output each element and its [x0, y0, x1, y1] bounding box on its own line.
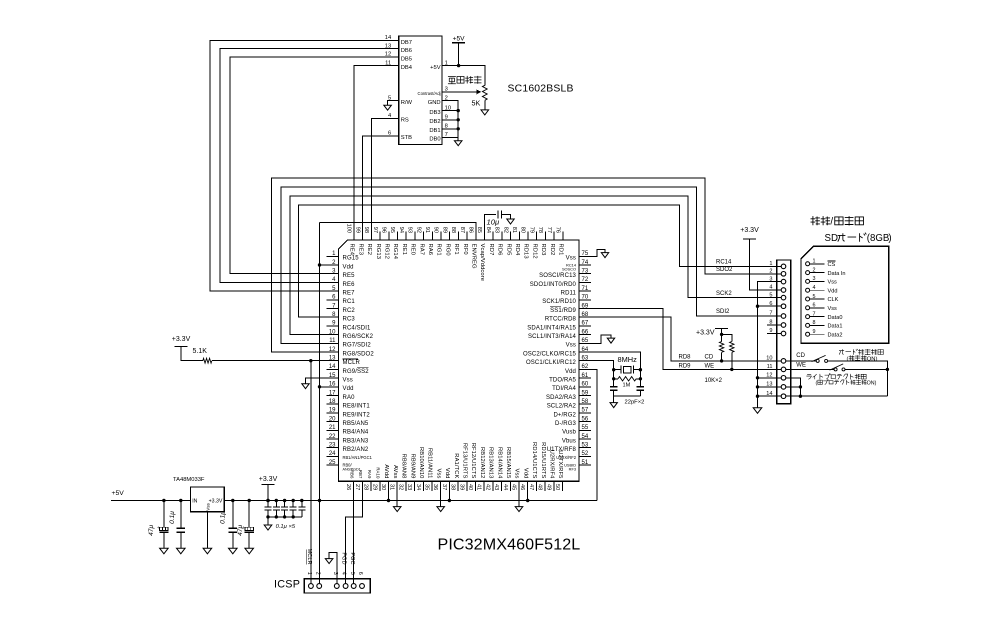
capacitor bank C8-C12 0.1u x5: [265, 499, 306, 525]
svg-text:DB6: DB6: [401, 48, 412, 54]
svg-text:DB5: DB5: [401, 56, 412, 62]
svg-text:STB: STB: [401, 135, 412, 141]
ground at crystal: [610, 403, 617, 408]
svg-text:DB7: DB7: [401, 40, 412, 46]
wire Vss pin45 to ground: [518, 491, 520, 507]
svg-text:+: +: [157, 526, 160, 531]
junction at LCD +5V: [457, 64, 460, 67]
svg-text:49: 49: [545, 484, 551, 490]
svg-text:19: 19: [329, 408, 336, 414]
wire SD ground rail CN1 pins 3 6 12 13 14: [758, 282, 782, 408]
svg-text:RB10/AN10: RB10/AN10: [418, 447, 424, 479]
resistor R2 1M: [614, 378, 641, 380]
svg-text:47μ: 47μ: [148, 525, 155, 536]
wire +3.3V to CN1 pin4: [750, 239, 782, 290]
svg-text:6: 6: [357, 572, 363, 575]
junction C5: [179, 499, 182, 502]
label kido-chousei (brightness adjust): [448, 77, 456, 84]
svg-text:75: 75: [582, 251, 589, 257]
svg-text:37: 37: [441, 484, 447, 490]
connector CN2 pin circles: [309, 584, 365, 589]
wire RG8/SDO2 pin12 to SD connector pin2 (SDO2 net): [272, 178, 782, 352]
potentiometer VR1 5K: [482, 85, 487, 100]
svg-text:85: 85: [476, 227, 482, 233]
svg-text:DB0: DB0: [429, 137, 440, 143]
svg-text:99: 99: [354, 227, 360, 233]
svg-text:11: 11: [767, 364, 773, 370]
SD card symbol body: [801, 246, 889, 343]
wire LCD Contrast/Adj to potentiometer wiper: [442, 91, 476, 93]
svg-text:97: 97: [372, 227, 378, 233]
svg-text:47: 47: [528, 484, 534, 490]
svg-text:RB11/AN11: RB11/AN11: [427, 448, 433, 479]
svg-text:RE2: RE2: [366, 244, 372, 256]
svg-text:3: 3: [813, 276, 816, 282]
svg-text:12: 12: [329, 347, 336, 353]
svg-text:+5V: +5V: [430, 65, 441, 71]
svg-text:34: 34: [415, 484, 421, 490]
svg-text:11: 11: [329, 338, 336, 344]
svg-text:RA9: RA9: [367, 470, 372, 479]
junction at pull-up split: [720, 333, 723, 336]
svg-text:RD15/U1RTS: RD15/U1RTS: [540, 442, 546, 478]
svg-text:RG12: RG12: [384, 244, 390, 260]
svg-text:29: 29: [371, 484, 377, 490]
svg-text:4: 4: [341, 572, 347, 575]
svg-text:RB9/AN9: RB9/AN9: [409, 454, 415, 479]
svg-text:36: 36: [432, 484, 438, 490]
svg-text:+5V: +5V: [453, 36, 466, 43]
svg-text:Vusb: Vusb: [562, 430, 576, 436]
ground at pin36: [437, 507, 445, 512]
svg-text:RD8: RD8: [679, 354, 692, 360]
svg-text:SDO2: SDO2: [716, 267, 733, 273]
svg-text:DB3: DB3: [429, 110, 440, 116]
junction +3.3V: [266, 499, 269, 502]
svg-text:PIC32MX460F512L: PIC32MX460F512L: [438, 536, 581, 554]
svg-text:52: 52: [582, 451, 589, 457]
svg-text:33: 33: [406, 484, 412, 490]
svg-text:ENVREG: ENVREG: [471, 244, 477, 269]
LCD module SC1602BSLB body: [399, 36, 442, 145]
U1 top pin name labels: [349, 244, 564, 282]
svg-text:SOSCI/RC13: SOSCI/RC13: [539, 273, 576, 279]
svg-text:RE4: RE4: [349, 244, 355, 256]
junction SW2-common: [886, 368, 889, 371]
junction rail Vdd pin46: [527, 491, 529, 501]
ground at pin15: [302, 384, 309, 389]
svg-text:WE: WE: [705, 363, 715, 369]
svg-text:92: 92: [415, 227, 421, 233]
svg-text:88: 88: [450, 227, 456, 233]
svg-text:2: 2: [769, 269, 772, 275]
svg-text:40: 40: [467, 484, 473, 490]
svg-text:D+/RG2: D+/RG2: [553, 412, 576, 418]
label write protect detect (Japanese): [806, 374, 811, 379]
junction R4-WE: [730, 368, 733, 371]
svg-text:18: 18: [329, 399, 336, 405]
svg-text:66: 66: [582, 329, 589, 335]
svg-text:0.1μ ×5: 0.1μ ×5: [276, 524, 296, 530]
wire U1 pin15 Vss to ground: [306, 378, 327, 384]
svg-text:RF12/U1CTS: RF12/U1CTS: [470, 443, 476, 479]
svg-text:5: 5: [349, 572, 355, 575]
crystal X1 8MHz: [614, 369, 641, 371]
U1 left pin name labels: [343, 256, 375, 472]
capacitor C2 22pF left: [610, 386, 617, 388]
svg-text:98: 98: [363, 227, 369, 233]
wire ICSP pin3 to ground: [329, 553, 337, 584]
wire RG7/SDI2 pin11 to SD connector pin7 (SDI2 net): [281, 187, 781, 343]
svg-text:RE6: RE6: [343, 282, 356, 288]
svg-text:TA48M033F: TA48M033F: [173, 477, 205, 483]
svg-text:RS: RS: [401, 118, 409, 124]
svg-text:+3.3V: +3.3V: [259, 476, 278, 483]
svg-text:GND: GND: [428, 100, 441, 106]
svg-text:5: 5: [813, 294, 816, 300]
capacitor C4 47u input: [163, 501, 165, 549]
wire Vdd net: U1 pin2, ENVREG pin86, pin16, +3.3V rail, ICSP pin2: [320, 222, 476, 583]
svg-text:2: 2: [314, 572, 320, 575]
svg-text:13: 13: [329, 356, 336, 362]
ground at capacitor bank: [264, 525, 272, 530]
svg-text:Vss: Vss: [566, 256, 576, 262]
svg-text:Vss: Vss: [828, 280, 838, 286]
wire LCD R/W to ground: [388, 101, 399, 106]
svg-text:96: 96: [381, 227, 387, 233]
svg-text:7: 7: [769, 311, 772, 317]
svg-text:RF13/U1RTS: RF13/U1RTS: [462, 443, 468, 479]
wire LCD STB to U1 RE3 pin99: [363, 136, 399, 232]
svg-text:25: 25: [329, 460, 336, 466]
svg-text:2: 2: [813, 267, 816, 273]
power +3.3V symbol at MCLR: [174, 346, 187, 348]
junction at U1 pin2: [318, 263, 321, 266]
svg-text:45: 45: [511, 484, 517, 490]
svg-text:RD5: RD5: [505, 244, 511, 256]
svg-text:Vdd: Vdd: [828, 288, 838, 294]
svg-text:RD3: RD3: [540, 244, 546, 256]
wire Vss pin36 to ground: [440, 491, 442, 507]
connector CN1 SD card socket body: [777, 260, 791, 404]
wire +3.3V output rail: [224, 500, 597, 502]
svg-text:Vdd: Vdd: [343, 386, 354, 392]
ground at C7: [245, 548, 254, 554]
svg-text:22pF×2: 22pF×2: [625, 400, 645, 406]
svg-text:60: 60: [582, 382, 589, 388]
svg-text:80: 80: [520, 227, 526, 233]
svg-text:CS: CS: [828, 262, 836, 268]
svg-text:RC3: RC3: [343, 317, 356, 323]
junction R3-CD: [720, 359, 723, 362]
svg-text:82: 82: [502, 227, 508, 233]
svg-text:28: 28: [363, 484, 369, 490]
svg-text:Data1: Data1: [828, 324, 843, 330]
svg-text:RG1: RG1: [436, 244, 442, 256]
svg-text:SDA2/RA3: SDA2/RA3: [546, 395, 577, 401]
svg-text:RE3: RE3: [357, 244, 363, 256]
svg-text:Vss: Vss: [435, 469, 441, 479]
wire U1 pin65 Vss to ground: [591, 335, 611, 344]
svg-text:SC1602BSLB: SC1602BSLB: [508, 84, 574, 95]
svg-text:DB1: DB1: [429, 128, 440, 134]
svg-text:RF1: RF1: [453, 244, 459, 255]
svg-text:87: 87: [459, 227, 465, 233]
U1 top pins 76-100 stubs and numbers: [346, 224, 563, 240]
svg-text:47μ: 47μ: [237, 525, 244, 536]
junction at U1 pin16: [318, 385, 321, 388]
svg-text:MCLR: MCLR: [343, 360, 361, 366]
svg-text:74: 74: [582, 260, 589, 266]
svg-text:59: 59: [582, 390, 589, 396]
svg-text:8GB: 8GB: [870, 233, 889, 244]
wire CN1 pins 12 13 14 right-side tie: [786, 378, 888, 396]
svg-text:0.1μ: 0.1μ: [220, 511, 227, 524]
svg-text:RB3/AN3: RB3/AN3: [343, 438, 369, 444]
connector CN2 ICSP body: [304, 579, 370, 593]
svg-text:SS1/RD9: SS1/RD9: [550, 308, 576, 314]
svg-text:64: 64: [582, 347, 589, 353]
svg-text:SDO1/INT0/RD0: SDO1/INT0/RD0: [530, 282, 577, 288]
svg-text:71: 71: [582, 286, 589, 292]
svg-text:(: (: [816, 380, 818, 386]
svg-text:10: 10: [329, 329, 336, 335]
wire U1 OSC1 pin63 to crystal left rail: [591, 361, 614, 396]
ground at pin45: [515, 507, 523, 512]
svg-text:91: 91: [424, 227, 430, 233]
svg-text:+3.3V: +3.3V: [740, 227, 759, 234]
connector CN2 pin numbers: [306, 572, 363, 575]
wire LCD DB6 to U1 RE6 pin4: [220, 49, 399, 283]
svg-text:OSC1/CLKI/RC12: OSC1/CLKI/RC12: [526, 360, 577, 366]
switch SW2 write protect: [834, 368, 837, 371]
wire +3.3V through resistor 5.1K to U1 MCLR pin13 and ICSP pin1: [181, 347, 327, 584]
svg-text:RD1: RD1: [558, 244, 564, 256]
svg-text:15: 15: [329, 373, 336, 379]
svg-text:RG6/SCK2: RG6/SCK2: [343, 334, 374, 340]
svg-text:CD: CD: [796, 353, 805, 359]
svg-text:Data0: Data0: [828, 315, 843, 321]
svg-text:+3.3V: +3.3V: [209, 498, 223, 504]
wire potentiometer to ground: [484, 100, 486, 110]
svg-text:RA1/TCK: RA1/TCK: [453, 453, 459, 478]
wire U1 SS1/RD9 pin69 to WE line: [591, 309, 834, 370]
wire AVss pin31 to ground: [396, 491, 398, 507]
power +3.3V symbol on rail: [261, 483, 274, 485]
svg-text:20: 20: [329, 416, 336, 422]
capacitor C3 22pF right: [637, 386, 644, 388]
label kioku/saisei-you (Japanese): [811, 216, 820, 225]
wire LCD DB4 to U1 RE4 pin100: [354, 66, 399, 232]
svg-text:84: 84: [485, 227, 491, 233]
svg-text:1: 1: [769, 261, 772, 267]
svg-text:TDI/RA4: TDI/RA4: [552, 386, 576, 392]
svg-text:RA7: RA7: [418, 244, 424, 256]
wire +5V input rail: [111, 500, 190, 502]
svg-text:31: 31: [389, 484, 395, 490]
svg-text:79: 79: [528, 227, 534, 233]
wire +3.3V to pull-up resistors: [722, 328, 732, 341]
U1 bottom pins 26-50 stubs and numbers: [345, 481, 562, 491]
svg-text:+5V: +5V: [112, 490, 125, 497]
wire U1 pin62 Vdd to +3.3V rail: [591, 369, 597, 500]
svg-text:21: 21: [329, 425, 336, 431]
svg-text:Vdd: Vdd: [522, 468, 528, 479]
svg-text:65: 65: [582, 338, 589, 344]
svg-text:1: 1: [813, 259, 816, 265]
svg-text:10: 10: [766, 356, 772, 362]
svg-text:4: 4: [813, 285, 816, 291]
svg-text:RB1/AN1/PGC1: RB1/AN1/PGC1: [343, 455, 373, 460]
junctions on SD ground rail: [756, 305, 759, 308]
svg-text:86: 86: [468, 227, 474, 233]
svg-text:70: 70: [582, 295, 589, 301]
svg-text:SD: SD: [825, 233, 838, 244]
svg-text:RF3: RF3: [569, 467, 576, 472]
svg-text:+3.3V: +3.3V: [172, 336, 191, 343]
svg-text:RG8/SDO2: RG8/SDO2: [343, 351, 375, 357]
svg-text:ON): ON): [867, 356, 878, 362]
svg-text:54: 54: [582, 434, 589, 440]
svg-text:8MHz: 8MHz: [618, 355, 638, 364]
svg-text:39: 39: [458, 484, 464, 490]
svg-text:RA6: RA6: [427, 244, 433, 256]
svg-text:100: 100: [346, 224, 352, 233]
wire +3.3V symbol to rail: [267, 484, 269, 500]
resistor R4 10K (WE pull-up): [730, 342, 734, 353]
svg-text:RB2/AN2: RB2/AN2: [343, 447, 369, 453]
svg-text:AVss: AVss: [392, 465, 398, 479]
svg-text:RTCC/RD8: RTCC/RD8: [545, 317, 577, 323]
svg-text:TDO/RA5: TDO/RA5: [549, 378, 576, 384]
label card insert detect (Japanese): [839, 349, 844, 354]
svg-text:RF0: RF0: [462, 244, 468, 255]
svg-text:61: 61: [582, 373, 589, 379]
svg-text:17: 17: [329, 390, 336, 396]
svg-text:RC2: RC2: [343, 308, 356, 314]
svg-text:55: 55: [582, 425, 589, 431]
svg-text:35: 35: [424, 484, 430, 490]
junction rail AVdd pin30: [388, 491, 390, 501]
svg-text:R/W: R/W: [401, 100, 413, 106]
svg-text:/: /: [830, 217, 833, 228]
capacitor C1 10u: [497, 211, 499, 219]
svg-text:RG13: RG13: [375, 244, 381, 260]
switch SW1 card detect: [816, 359, 819, 362]
svg-text:RD14/U1CTS: RD14/U1CTS: [531, 442, 537, 478]
svg-text:Contrast/Adj: Contrast/Adj: [418, 91, 441, 96]
svg-text:DB2: DB2: [429, 119, 440, 125]
svg-text:Vbus: Vbus: [562, 438, 576, 444]
svg-text:8: 8: [813, 320, 816, 326]
power +3.3V symbol at SD Vdd: [743, 238, 756, 240]
svg-text:22: 22: [329, 434, 336, 440]
wire R3 to CD line: [721, 352, 723, 361]
svg-text:38: 38: [450, 484, 456, 490]
svg-text:73: 73: [582, 269, 589, 275]
wire U1 PGD pin27 to ICSP pin4: [346, 491, 363, 584]
svg-text:1: 1: [306, 572, 312, 575]
svg-text:72: 72: [582, 277, 589, 283]
wire capacitor 10u to ground: [501, 215, 510, 219]
svg-text:SCK2: SCK2: [716, 291, 732, 297]
SD card symbol pins: [806, 259, 846, 339]
svg-text:0.1μ: 0.1μ: [169, 511, 176, 524]
svg-text:7: 7: [813, 311, 816, 317]
wire U1 OSC2 pin64 to crystal right rail: [591, 352, 640, 396]
capacitor C6 0.1u output: [232, 501, 234, 549]
regulator U2 TA48M033F body: [190, 487, 224, 512]
svg-text:RE5: RE5: [343, 273, 356, 279]
svg-text:50: 50: [554, 484, 560, 490]
svg-text:5K: 5K: [472, 98, 481, 107]
svg-text:+3.3V: +3.3V: [696, 330, 715, 337]
svg-text:ON): ON): [867, 380, 877, 386]
ground at C5: [177, 548, 186, 554]
svg-text:RE0: RE0: [410, 244, 416, 256]
svg-text:Vss: Vss: [566, 343, 576, 349]
svg-text:ICSP: ICSP: [274, 579, 300, 591]
wire LCD RS to U1 RE2 pin98: [371, 118, 398, 231]
ground at regulator: [203, 548, 212, 554]
svg-text:D-/RG3: D-/RG3: [555, 421, 577, 427]
svg-text:93: 93: [407, 227, 413, 233]
resistor R3 10K (CD pull-up): [719, 342, 723, 353]
svg-text:RB15/AN15: RB15/AN15: [505, 447, 511, 479]
svg-text:77: 77: [546, 227, 552, 233]
junction C4: [162, 499, 165, 502]
svg-text:RB12/AN12: RB12/AN12: [479, 447, 485, 479]
svg-text:AVdd: AVdd: [383, 464, 389, 478]
U1 right pin name labels: [523, 256, 577, 472]
svg-text:RD4: RD4: [514, 244, 520, 257]
ground at potentiometer: [481, 110, 489, 115]
svg-text:83: 83: [494, 227, 500, 233]
resistor R1 5.1K: [203, 358, 212, 363]
svg-text:48: 48: [537, 484, 543, 490]
svg-text:95: 95: [389, 227, 395, 233]
svg-text:69: 69: [582, 303, 589, 309]
svg-text:RD12: RD12: [531, 244, 537, 259]
wire Vcap pin85 to capacitor 10u: [485, 215, 496, 232]
svg-text:10μ: 10μ: [487, 218, 500, 227]
svg-text:Data In: Data In: [828, 271, 846, 277]
svg-text:(: (: [847, 356, 849, 362]
svg-text:9: 9: [813, 329, 816, 335]
svg-text:Data2: Data2: [828, 332, 843, 338]
wire U1 RTCC/RD8 pin68 to CD line: [591, 317, 816, 361]
junction rail Vdd vertical: [318, 499, 321, 502]
ground at pin31: [393, 507, 401, 512]
svg-text:SCL2/RA2: SCL2/RA2: [547, 404, 577, 410]
wire LCD DB5 to U1 RE5 pin3: [230, 57, 399, 274]
svg-text:RD2: RD2: [549, 244, 555, 256]
ground at Vcap capacitor: [507, 219, 514, 224]
junction C6: [231, 499, 234, 502]
svg-text:RD6: RD6: [497, 244, 503, 256]
svg-text:RA10: RA10: [376, 467, 381, 479]
svg-text:56: 56: [582, 416, 589, 422]
svg-text:DB4: DB4: [401, 65, 413, 71]
svg-text:90: 90: [433, 227, 439, 233]
ground at LCD R/W: [384, 105, 392, 110]
svg-text:Vss: Vss: [343, 378, 353, 384]
svg-text:68: 68: [582, 312, 589, 318]
svg-text:SDA1/INT4/RA15: SDA1/INT4/RA15: [527, 325, 576, 331]
svg-text:SOSCO: SOSCO: [562, 267, 576, 272]
junction rail Vdd pin37: [448, 491, 450, 501]
svg-text:SCL1/INT3/RA14: SCL1/INT3/RA14: [528, 334, 577, 340]
